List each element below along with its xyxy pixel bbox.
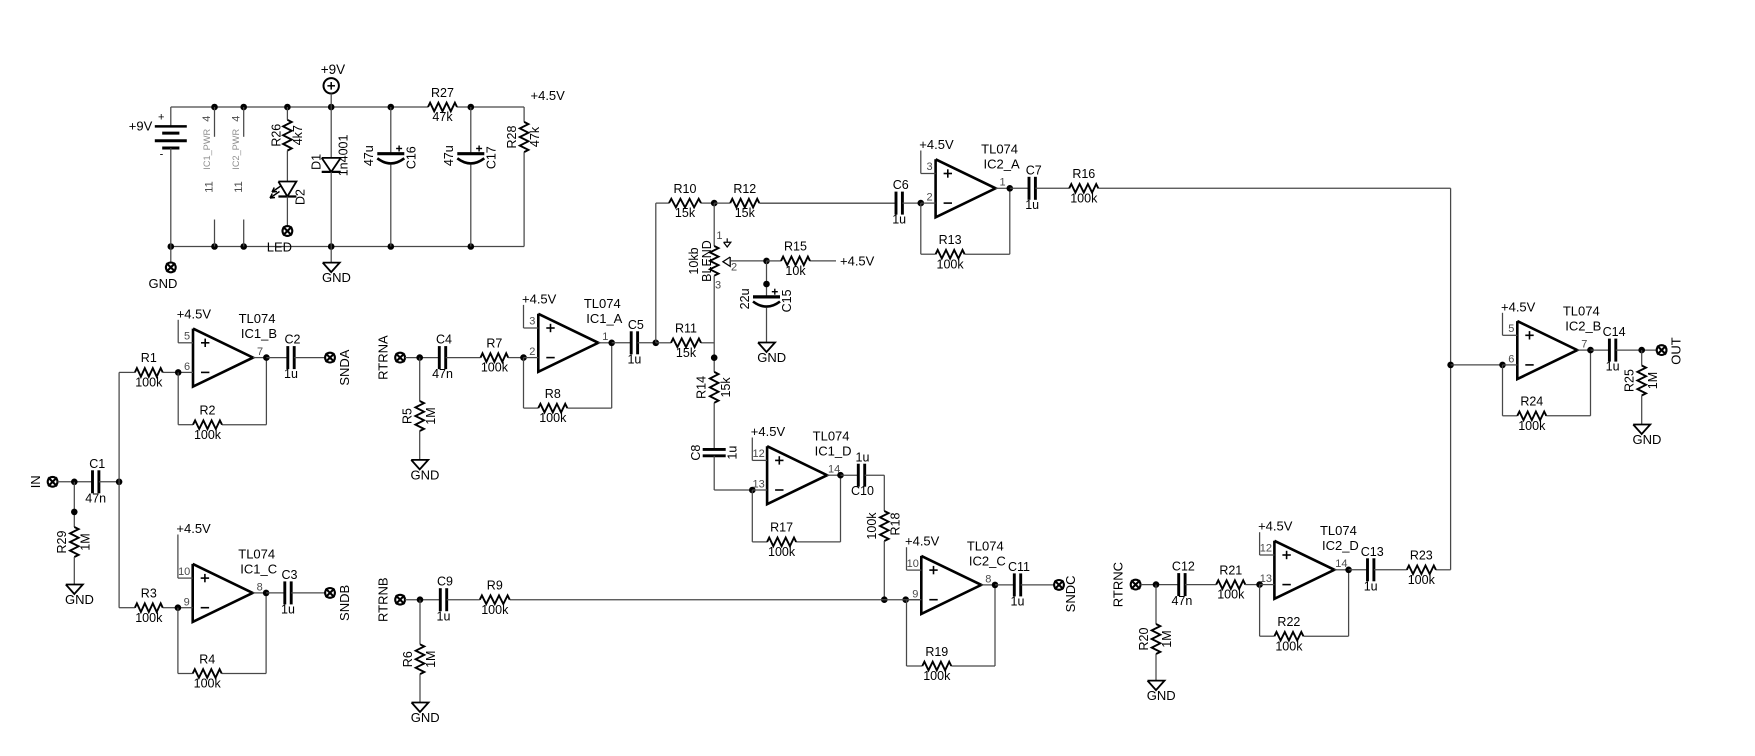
svg-text:12: 12 bbox=[1260, 543, 1272, 555]
svg-text:R12: R12 bbox=[733, 182, 756, 196]
svg-text:+4.5V: +4.5V bbox=[840, 253, 875, 268]
svg-text:+4.5V: +4.5V bbox=[531, 88, 566, 103]
svg-text:3: 3 bbox=[529, 316, 535, 328]
svg-text:C9: C9 bbox=[437, 575, 453, 589]
svg-text:R10: R10 bbox=[674, 182, 697, 196]
svg-text:IC1_PWR: IC1_PWR bbox=[202, 129, 212, 170]
svg-text:R25: R25 bbox=[1622, 369, 1636, 392]
svg-text:1u: 1u bbox=[1025, 198, 1039, 212]
svg-text:C15: C15 bbox=[780, 289, 794, 312]
svg-text:D1: D1 bbox=[309, 154, 323, 170]
svg-text:R5: R5 bbox=[400, 408, 414, 424]
svg-text:10: 10 bbox=[907, 558, 919, 570]
svg-text:7: 7 bbox=[257, 346, 263, 358]
svg-text:+4.5V: +4.5V bbox=[1501, 299, 1536, 314]
svg-text:3: 3 bbox=[715, 280, 721, 292]
svg-text:R3: R3 bbox=[141, 586, 157, 600]
svg-text:IC1_D: IC1_D bbox=[815, 444, 852, 459]
svg-text:9: 9 bbox=[184, 596, 190, 608]
svg-text:R8: R8 bbox=[545, 387, 561, 401]
svg-text:C11: C11 bbox=[1008, 560, 1030, 574]
svg-text:IC1_B: IC1_B bbox=[241, 326, 277, 341]
svg-text:R14: R14 bbox=[695, 376, 709, 399]
svg-text:100k: 100k bbox=[539, 411, 567, 425]
svg-text:4: 4 bbox=[201, 116, 213, 122]
svg-text:+4.5V: +4.5V bbox=[751, 424, 786, 439]
svg-text:BLEND: BLEND bbox=[700, 240, 714, 282]
svg-text:100k: 100k bbox=[135, 375, 163, 389]
svg-text:IN: IN bbox=[28, 475, 43, 488]
svg-text:R29: R29 bbox=[55, 530, 69, 553]
svg-text:R20: R20 bbox=[1137, 627, 1151, 650]
svg-text:8: 8 bbox=[985, 573, 991, 585]
svg-text:+4.5V: +4.5V bbox=[1258, 519, 1293, 534]
svg-text:GND: GND bbox=[1147, 688, 1176, 703]
svg-text:13: 13 bbox=[1260, 573, 1272, 585]
svg-text:R22: R22 bbox=[1277, 615, 1300, 629]
svg-text:11: 11 bbox=[233, 181, 245, 192]
svg-text:R4: R4 bbox=[199, 652, 215, 666]
svg-text:TL074: TL074 bbox=[981, 142, 1018, 157]
svg-text:C7: C7 bbox=[1026, 163, 1042, 177]
svg-text:R24: R24 bbox=[1520, 395, 1543, 409]
svg-text:TL074: TL074 bbox=[1320, 523, 1357, 538]
svg-text:100k: 100k bbox=[865, 512, 879, 540]
svg-text:100k: 100k bbox=[923, 669, 951, 683]
svg-text:R7: R7 bbox=[486, 336, 502, 350]
svg-text:100k: 100k bbox=[768, 545, 796, 559]
svg-text:10kb: 10kb bbox=[687, 247, 701, 274]
svg-text:13: 13 bbox=[752, 479, 764, 491]
svg-text:+4.5V: +4.5V bbox=[176, 521, 211, 536]
svg-text:R15: R15 bbox=[784, 240, 807, 254]
svg-text:+: + bbox=[158, 112, 164, 124]
svg-text:C3: C3 bbox=[282, 568, 298, 582]
svg-text:SNDA: SNDA bbox=[337, 349, 352, 385]
svg-text:1u: 1u bbox=[1011, 594, 1025, 608]
svg-text:RTRNC: RTRNC bbox=[1111, 562, 1126, 607]
svg-text:2: 2 bbox=[927, 192, 933, 204]
svg-text:IC2_C: IC2_C bbox=[969, 553, 1006, 568]
svg-text:R28: R28 bbox=[505, 125, 519, 148]
svg-text:+4.5V: +4.5V bbox=[919, 137, 954, 152]
svg-text:47u: 47u bbox=[362, 145, 376, 166]
svg-text:6: 6 bbox=[1508, 354, 1514, 366]
svg-text:100k: 100k bbox=[194, 428, 222, 442]
svg-text:100k: 100k bbox=[1408, 573, 1436, 587]
svg-text:+9V: +9V bbox=[129, 118, 153, 133]
svg-text:GND: GND bbox=[1632, 432, 1661, 447]
svg-text:C5: C5 bbox=[628, 318, 644, 332]
svg-text:R1: R1 bbox=[141, 351, 157, 365]
svg-text:RTRNA: RTRNA bbox=[375, 335, 390, 380]
svg-text:R26: R26 bbox=[269, 124, 283, 147]
svg-text:10: 10 bbox=[178, 566, 190, 578]
svg-text:R9: R9 bbox=[487, 578, 503, 592]
svg-text:IC2_D: IC2_D bbox=[1322, 538, 1359, 553]
svg-text:1M: 1M bbox=[1160, 630, 1174, 647]
svg-text:C13: C13 bbox=[1361, 545, 1384, 559]
svg-text:R13: R13 bbox=[939, 233, 962, 247]
svg-text:1u: 1u bbox=[284, 367, 298, 381]
svg-text:SNDB: SNDB bbox=[337, 585, 352, 621]
svg-text:R19: R19 bbox=[925, 645, 948, 659]
svg-text:47n: 47n bbox=[1171, 594, 1192, 608]
svg-text:C1: C1 bbox=[89, 457, 105, 471]
svg-text:+4.5V: +4.5V bbox=[177, 306, 212, 321]
svg-text:LED: LED bbox=[267, 239, 292, 254]
svg-text:R27: R27 bbox=[431, 86, 454, 100]
svg-text:D2: D2 bbox=[294, 189, 308, 205]
svg-text:R18: R18 bbox=[889, 512, 903, 535]
svg-text:9: 9 bbox=[912, 588, 918, 600]
svg-text:C14: C14 bbox=[1603, 325, 1626, 339]
svg-text:R21: R21 bbox=[1219, 563, 1242, 577]
svg-text:47k: 47k bbox=[432, 110, 453, 124]
svg-text:47k: 47k bbox=[528, 126, 542, 147]
svg-text:C8: C8 bbox=[689, 445, 703, 461]
svg-text:1M: 1M bbox=[78, 533, 92, 550]
svg-text:100k: 100k bbox=[1275, 639, 1303, 653]
svg-text:1u: 1u bbox=[281, 602, 295, 616]
svg-text:15k: 15k bbox=[735, 206, 756, 220]
svg-text:8: 8 bbox=[257, 581, 263, 593]
svg-text:1M: 1M bbox=[424, 407, 438, 424]
svg-text:100k: 100k bbox=[1518, 419, 1546, 433]
svg-text:100k: 100k bbox=[937, 257, 965, 271]
svg-text:C17: C17 bbox=[484, 146, 498, 169]
svg-text:+4.5V: +4.5V bbox=[522, 291, 557, 306]
svg-text:1u: 1u bbox=[437, 609, 451, 623]
svg-text:C16: C16 bbox=[404, 146, 418, 169]
svg-text:C10: C10 bbox=[851, 484, 874, 498]
svg-text:TL074: TL074 bbox=[967, 538, 1004, 553]
svg-text:5: 5 bbox=[1508, 323, 1514, 335]
svg-text:IC2_PWR: IC2_PWR bbox=[231, 129, 241, 170]
svg-text:R6: R6 bbox=[401, 651, 415, 667]
svg-text:IC1_A: IC1_A bbox=[586, 311, 622, 326]
svg-text:47u: 47u bbox=[442, 145, 456, 166]
svg-text:7: 7 bbox=[1581, 339, 1587, 351]
svg-text:GND: GND bbox=[411, 710, 440, 725]
svg-text:12: 12 bbox=[752, 448, 764, 460]
svg-text:IC2_B: IC2_B bbox=[1565, 319, 1601, 334]
svg-text:47n: 47n bbox=[432, 367, 453, 381]
svg-text:1u: 1u bbox=[856, 451, 870, 465]
svg-text:1: 1 bbox=[602, 331, 608, 343]
svg-text:C6: C6 bbox=[893, 178, 909, 192]
svg-text:100k: 100k bbox=[1217, 588, 1245, 602]
svg-text:RTRNB: RTRNB bbox=[375, 577, 390, 622]
svg-text:1u: 1u bbox=[725, 446, 739, 460]
svg-text:1: 1 bbox=[716, 230, 722, 242]
svg-text:1u: 1u bbox=[1364, 579, 1378, 593]
svg-text:TL074: TL074 bbox=[813, 429, 850, 444]
svg-text:100k: 100k bbox=[194, 677, 222, 691]
svg-text:11: 11 bbox=[204, 181, 216, 192]
svg-text:1: 1 bbox=[1000, 177, 1006, 189]
svg-text:3: 3 bbox=[927, 161, 933, 173]
svg-text:15k: 15k bbox=[676, 346, 697, 360]
svg-text:TL074: TL074 bbox=[584, 296, 621, 311]
svg-text:R17: R17 bbox=[770, 521, 793, 535]
svg-text:TL074: TL074 bbox=[238, 546, 275, 561]
svg-text:2: 2 bbox=[529, 346, 535, 358]
svg-text:1u: 1u bbox=[1606, 360, 1620, 374]
svg-text:1M: 1M bbox=[1646, 372, 1660, 389]
svg-text:+4.5V: +4.5V bbox=[905, 534, 940, 549]
svg-text:22u: 22u bbox=[738, 288, 752, 309]
svg-text:TL074: TL074 bbox=[1563, 304, 1600, 319]
svg-text:C2: C2 bbox=[285, 333, 301, 347]
svg-text:15k: 15k bbox=[675, 206, 696, 220]
svg-text:6: 6 bbox=[184, 361, 190, 373]
svg-text:100k: 100k bbox=[135, 611, 163, 625]
svg-text:R2: R2 bbox=[200, 403, 216, 417]
svg-text:R23: R23 bbox=[1410, 549, 1433, 563]
svg-text:R16: R16 bbox=[1072, 167, 1095, 181]
svg-text:15k: 15k bbox=[719, 377, 733, 398]
svg-text:100k: 100k bbox=[481, 603, 509, 617]
svg-text:IC1_C: IC1_C bbox=[240, 561, 277, 576]
svg-text:1u: 1u bbox=[627, 352, 641, 366]
svg-text:SNDC: SNDC bbox=[1063, 575, 1078, 612]
svg-text:GND: GND bbox=[757, 350, 786, 365]
svg-text:GND: GND bbox=[322, 270, 351, 285]
svg-text:R11: R11 bbox=[675, 322, 697, 336]
svg-text:10k: 10k bbox=[785, 264, 806, 278]
svg-text:TL074: TL074 bbox=[239, 311, 276, 326]
svg-text:IC2_A: IC2_A bbox=[984, 157, 1020, 172]
svg-text:4: 4 bbox=[230, 116, 242, 122]
svg-text:5: 5 bbox=[184, 331, 190, 343]
svg-text:2: 2 bbox=[731, 262, 737, 274]
svg-text:GND: GND bbox=[410, 468, 439, 483]
svg-text:+9V: +9V bbox=[321, 62, 345, 77]
svg-text:100k: 100k bbox=[481, 361, 509, 375]
svg-text:4k7: 4k7 bbox=[291, 125, 305, 145]
svg-text:1u: 1u bbox=[892, 213, 906, 227]
svg-text:1n4001: 1n4001 bbox=[337, 134, 351, 176]
svg-text:100k: 100k bbox=[1070, 191, 1098, 205]
svg-text:1M: 1M bbox=[424, 651, 438, 668]
svg-text:C12: C12 bbox=[1172, 560, 1195, 574]
svg-text:C4: C4 bbox=[436, 333, 452, 347]
svg-text:-: - bbox=[160, 148, 164, 160]
svg-text:GND: GND bbox=[65, 592, 94, 607]
svg-text:47n: 47n bbox=[85, 491, 106, 505]
svg-text:GND: GND bbox=[148, 276, 177, 291]
svg-text:OUT: OUT bbox=[1668, 337, 1683, 365]
